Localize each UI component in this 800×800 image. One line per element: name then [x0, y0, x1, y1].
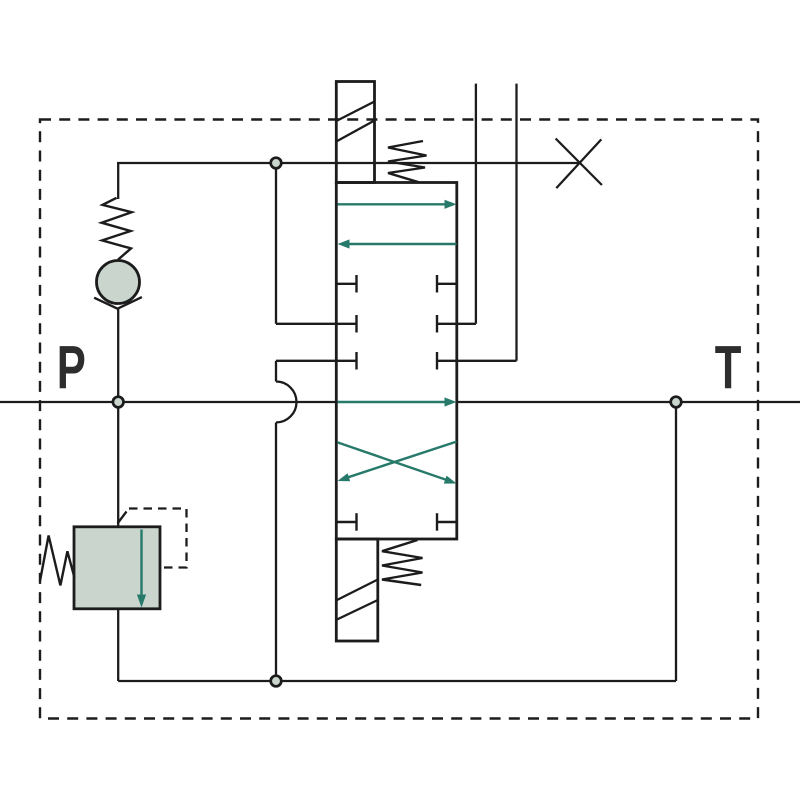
check valve CV1 spring: [102, 198, 132, 260]
wire left vertical x=276 above hop: [275, 361, 277, 382]
blocked port row1 right: [437, 275, 457, 293]
wire P branch vertical to node P: [117, 309, 119, 402]
flow arrow straight P to T (center position): [338, 401, 448, 403]
solenoid S2 diagonal 2: [337, 600, 378, 620]
relief valve RV1 flow arrow: [140, 530, 142, 597]
flow arrow right (position a): [338, 203, 448, 205]
spring SP1 (top): [388, 141, 427, 182]
solenoid S2 (bottom): [336, 539, 378, 641]
wire work port B link to row3: [457, 360, 517, 362]
wire hop over main line: [276, 381, 297, 422]
solenoid S1 (top): [336, 82, 374, 183]
check valve CV1 ball: [97, 261, 140, 304]
flow arrow left (position a): [347, 243, 457, 245]
blocked port row2 right: [437, 315, 457, 333]
node T junction: [671, 397, 682, 408]
svg-text:P: P: [57, 334, 86, 402]
wire work port B vertical: [515, 84, 517, 361]
blocked port row3 left: [337, 352, 357, 370]
wire pilot line top (y=163): [117, 162, 579, 164]
relief valve RV1 spring: [40, 536, 74, 586]
directional valve DV1 body: [336, 183, 457, 540]
svg-text:T: T: [715, 334, 742, 402]
relief valve RV1 pilot dashed line: [129, 509, 187, 568]
blocked port row4 right: [437, 513, 457, 531]
solenoid S2 diagonal 1: [337, 580, 378, 601]
wire node P down to relief valve: [117, 402, 119, 527]
solenoid S1 diagonal 1: [336, 102, 374, 122]
wire work port A vertical: [475, 84, 477, 324]
spring SP2 (bottom): [382, 540, 423, 585]
flow arrow cross down-left: [347, 442, 457, 478]
check valve CV1 seat: [94, 297, 142, 309]
node P junction: [113, 397, 124, 408]
relief valve RV1 pilot tap tick: [118, 512, 127, 524]
enclosure dashed border: [40, 120, 758, 719]
blocked port row3 right: [437, 352, 457, 370]
wire bottom return line: [118, 680, 676, 682]
wire P branch vertical upper: [117, 163, 119, 199]
wire T branch vertical: [675, 402, 677, 681]
wire relief valve to bottom line: [117, 609, 119, 681]
relief valve RV1 body: [74, 527, 160, 609]
wire left vertical x=276 below hop: [275, 423, 277, 682]
blocked port row1 left: [337, 275, 357, 293]
node junction on bottom return line: [271, 676, 282, 687]
wire pilot branch vertical x=276 upper: [275, 163, 277, 324]
wire P main line left segment: [0, 401, 337, 403]
blocked port row2 left: [337, 315, 357, 333]
wire valve row3 to left vertical: [276, 360, 337, 362]
solenoid S1 diagonal 2: [336, 121, 374, 142]
wire pilot branch to valve port row2: [276, 323, 337, 325]
blocked port row4 left: [337, 513, 357, 531]
wire T main line right segment: [457, 401, 800, 403]
plugged port X symbol: [556, 139, 602, 189]
node junction on pilot line: [271, 158, 282, 169]
flow arrow cross down-right: [338, 442, 448, 480]
wire work port A link to row2: [457, 323, 476, 325]
